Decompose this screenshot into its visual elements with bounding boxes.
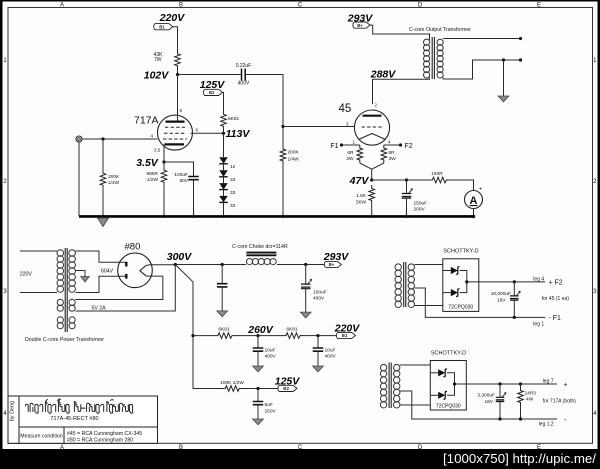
wire grid node to 45 pin 3 (283, 126, 355, 128)
net tag B+ 293V output (323, 251, 350, 268)
svg-text:leg 4: leg 4 (533, 276, 544, 282)
power transformer core (65, 248, 67, 332)
wire mains primary bottom (20, 292, 57, 294)
node 113V (222, 128, 250, 140)
wire mains primary top (20, 250, 57, 252)
45 filament V (358, 134, 385, 140)
svg-text:C-core Output Transformer: C-core Output Transformer (409, 27, 471, 33)
filament transformer 1 core (404, 262, 406, 307)
wire 113V node to zener chain (223, 133, 225, 157)
capacitor 10uF 400V at 220V (313, 348, 337, 360)
rectifier box 72CPQ030 no2 (430, 361, 466, 411)
capacitor 0.22uF 400V coupling (236, 63, 252, 87)
svg-text:+: + (479, 187, 482, 193)
wire ammeter to ground bus (473, 209, 475, 217)
wire secondary 1 tap to F1 return rail (415, 288, 546, 317)
svg-text:6K81: 6K81 (228, 116, 240, 122)
wire junction to B+ tag (306, 264, 325, 266)
wire zener2 to zener3 (223, 177, 225, 183)
wire 300V rail to choke (175, 264, 246, 266)
power transformer HV secondary winding 604V (69, 250, 76, 257)
svg-text:200V: 200V (414, 207, 426, 213)
svg-text:100uF: 100uF (174, 172, 188, 178)
wire secondary 2 tap to return rail 2 (400, 391, 557, 419)
node 24R3 junction top (519, 382, 522, 385)
svg-text:C-core Choke dcr=114R: C-core Choke dcr=114R (232, 244, 288, 250)
svg-text:72CPQ030: 72CPQ030 (448, 305, 473, 311)
output terminal top (519, 37, 522, 40)
wire 102V node to coupling cap (178, 74, 242, 76)
svg-text:1/4W: 1/4W (108, 180, 120, 186)
ammeter A (465, 187, 483, 209)
717A plate bar (166, 120, 185, 122)
wire 220V node to B1 tag (318, 335, 337, 337)
node common cathode 2 (453, 382, 456, 385)
output transformer primary winding (424, 39, 430, 45)
node 45 grid junction (281, 125, 284, 128)
svg-text:leg 1,2: leg 1,2 (539, 422, 554, 428)
capacitor 150uF 200V bias bypass (402, 189, 427, 213)
wire 260V to 6K81 dropper 2 (258, 335, 281, 337)
svg-text:400V: 400V (325, 354, 337, 360)
title block outer box (8, 396, 158, 443)
node 260V (247, 324, 274, 337)
power transformer 5V winding lower (57, 317, 63, 323)
wire 5uF to ground (257, 405, 259, 419)
svg-text:866R: 866R (147, 171, 159, 177)
node 102V (144, 70, 179, 82)
resistor 200K 1/4W grid leak of 45 (280, 147, 299, 164)
node 3300uF junction bottom (498, 417, 501, 420)
wire diodes to common cathode node 2 (447, 373, 455, 396)
svg-text:#80: #80 (125, 242, 141, 253)
svg-text:7W: 7W (154, 57, 162, 63)
node secondary ground junction (502, 58, 505, 61)
svg-text:B1: B1 (159, 24, 165, 29)
svg-text:+ F2: + F2 (549, 280, 563, 287)
wire 200K to ground bus (102, 188, 104, 217)
svg-text:100K 1/2W: 100K 1/2W (220, 380, 244, 386)
wire 47V node to 150uF node (372, 179, 407, 181)
svg-text:24R3: 24R3 (525, 391, 537, 397)
capacitor 3,300uF 16V (477, 392, 505, 405)
wire B+ tag to output transformer primary (370, 25, 430, 40)
wire 3.5V node to cathode resistor and cap (164, 162, 194, 177)
svg-text:+: + (564, 382, 568, 389)
svg-text:400V: 400V (265, 354, 277, 360)
filament transformer 2 secondary winding (394, 364, 400, 370)
wire 6K81 to 220V node (305, 335, 318, 337)
wire secondary 2 bottom to box (400, 404, 430, 406)
wire zener3 to zener4 (223, 190, 225, 196)
zener diode 33V b (219, 183, 235, 196)
frame zone letters top (60, 3, 541, 9)
svg-text:6K81: 6K81 (218, 327, 230, 333)
wire 10000uF to return rail (513, 300, 515, 317)
#80 plate bars (125, 262, 127, 279)
node 10000uF junction bottom (513, 316, 516, 319)
wire secondary 1 bottom to box (415, 305, 443, 307)
svg-text:5uF: 5uF (265, 402, 273, 408)
svg-text:288V: 288V (370, 69, 397, 81)
wire F1 to left filament leg (342, 144, 360, 146)
node 220V (316, 323, 360, 338)
svg-text:400V: 400V (238, 81, 250, 87)
frame zone numbers left (3, 58, 7, 417)
svg-text:Double C-core Power Transforme: Double C-core Power Transformer (25, 337, 104, 343)
svg-text:#45 = RCA Cunningham CX-345: #45 = RCA Cunningham CX-345 (67, 431, 142, 437)
schottky diode 2a (430, 369, 447, 377)
svg-text:B: B (179, 3, 183, 9)
svg-text:33: 33 (230, 177, 236, 183)
input jack (76, 136, 82, 142)
svg-text:16V: 16V (484, 399, 493, 405)
svg-text:B2: B2 (209, 90, 215, 95)
svg-text:33: 33 (230, 203, 236, 209)
net tag B2 125V supply (200, 79, 226, 96)
svg-text:E: E (537, 3, 541, 9)
wire 10uF to ground (257, 351, 259, 366)
ground bus junction dots (101, 215, 104, 218)
wire HV secondary top to #80 plate 1 (75, 251, 125, 262)
svg-text:604V: 604V (101, 269, 114, 275)
tube 717A envelope (158, 115, 193, 150)
svg-text:3W: 3W (346, 156, 354, 162)
svg-text:F2: F2 (405, 143, 413, 150)
717A grid dashed lines (163, 127, 187, 139)
svg-text:B+: B+ (329, 262, 335, 267)
title block by-Deng column divider (18, 396, 20, 443)
svg-text:leg 1: leg 1 (533, 321, 544, 327)
resistor 6K81 dropper 2 (281, 327, 305, 339)
wire 150R to ammeter (448, 180, 474, 191)
zener diode 33V c (219, 196, 235, 209)
svg-text:Measure condition: Measure condition (20, 434, 63, 440)
resistor 6R 3W left hum (346, 145, 362, 163)
svg-text:6R: 6R (389, 150, 396, 156)
node F2 terminal (399, 143, 413, 150)
zener diode 33V a (219, 170, 235, 183)
svg-text:for 45 (1 ea): for 45 (1 ea) (542, 296, 570, 302)
wire 150uF to ground bus (406, 198, 408, 216)
schottky diode 1b (443, 289, 460, 297)
svg-text:3.5V: 3.5V (136, 157, 159, 169)
wire zener1 to zener2 (223, 164, 225, 170)
svg-text:3W: 3W (389, 156, 397, 162)
wire 866R to ground bus (163, 185, 165, 217)
svg-text:113V: 113V (226, 128, 251, 140)
wire primary bottom to 288V node (373, 78, 430, 105)
resistor 24R3 4W bleeder (518, 384, 537, 405)
wire junction down to 150uF cap (406, 180, 408, 194)
ground 5uF cap (253, 419, 264, 425)
wire HV secondary bottom to #80 plate 2 (75, 276, 125, 292)
zener diode 12V (219, 157, 235, 170)
wire B2 tag down to 6K81 (222, 92, 223, 113)
svg-text:C: C (298, 3, 303, 9)
wire junction down to 10000uF (513, 282, 515, 296)
wire #80 filament top to 300V node (146, 264, 175, 267)
Thai tone marks (46, 399, 113, 401)
ground first filter cap (217, 311, 228, 317)
wire 125V down to 5uF (257, 389, 259, 402)
wire choke to B+ node (277, 264, 306, 266)
svg-text:33: 33 (230, 190, 236, 196)
wire secondary top to output terminal (443, 38, 520, 40)
wire plate of 717A up to 102V node (177, 75, 179, 122)
svg-text:16V: 16V (497, 298, 506, 304)
wire F2 to right filament leg (384, 144, 401, 146)
wire 260V down to 10uF cap (257, 336, 259, 348)
svg-text:[1000x750] http://upic.me/: [1000x750] http://upic.me/ (443, 451, 596, 466)
node 10000uF junction top (513, 280, 516, 283)
wire junction to 150R (407, 179, 431, 181)
wire junction down to 100uF cap (305, 265, 307, 285)
node 125V (256, 376, 300, 391)
wire 10uF 2 to ground (317, 351, 319, 366)
45 plate bar (363, 115, 382, 117)
svg-text:SCHOTTKY-D: SCHOTTKY-D (431, 351, 466, 357)
wire 1.5K to ground bus (371, 204, 373, 216)
resistor 150R meter shunt (431, 171, 449, 183)
resistor 100K 1/2W (216, 380, 248, 391)
choke core bars (246, 253, 276, 256)
svg-text:B1: B1 (342, 333, 348, 338)
svg-text:6R: 6R (347, 150, 354, 156)
capacitor 100uF 50V cathode bypass (174, 172, 198, 184)
svg-text:72CPQ030: 72CPQ030 (436, 404, 461, 410)
svg-text:260V: 260V (247, 324, 274, 336)
ground bus main (79, 215, 474, 218)
rectifier box 72CPQ030 no1 (443, 259, 479, 312)
wire B1 tag to 43K resistor (173, 27, 178, 51)
#80 filament chevron (140, 265, 146, 276)
node input junction (101, 137, 104, 140)
wire 100uF to ground bus (193, 180, 195, 216)
node 150uF junction (405, 178, 408, 181)
45 grid dashed line (362, 126, 383, 128)
svg-text:B: B (179, 445, 183, 451)
resistor 6K81 dropper 1 (213, 327, 237, 339)
output terminal bottom (519, 58, 522, 61)
title block measure cell divider (63, 427, 65, 443)
capacitor 5uF 250V (253, 402, 277, 415)
svg-text:220V: 220V (159, 12, 186, 24)
wire grid node to 200K and down to ground bus (282, 127, 284, 217)
wire dropper chain bottom to 100K (193, 388, 216, 390)
svg-text:by Deng: by Deng (10, 401, 16, 422)
tube 45 envelope (354, 110, 389, 145)
wire junction down to first filter cap (221, 265, 223, 284)
svg-text:10,000uF: 10,000uF (491, 291, 511, 297)
svg-text:3,5: 3,5 (154, 148, 161, 153)
node 300V (167, 251, 193, 266)
svg-text:150uF: 150uF (414, 201, 428, 207)
svg-text:717A: 717A (134, 115, 159, 127)
ground 100uF cap (300, 312, 311, 318)
wire 3300uF to return rail 2 (499, 402, 501, 420)
power transformer 5V winding upper (57, 299, 63, 305)
svg-text:1/2W: 1/2W (147, 177, 159, 183)
svg-text:10uF: 10uF (325, 348, 336, 354)
filament transformer 1 primary winding (395, 264, 401, 270)
wire 220V down to 10uF cap 2 (317, 336, 319, 348)
svg-text:4W: 4W (526, 397, 534, 403)
svg-text:10uF: 10uF (265, 348, 276, 354)
svg-text:6K81: 6K81 (286, 327, 298, 333)
filament transformer 2 core (389, 363, 391, 409)
capacitor 10,000uF 16V (491, 291, 520, 304)
wire 100uF to ground (305, 289, 307, 312)
wire junction down to 200K grid resistor (102, 139, 104, 171)
tube #80 envelope (118, 253, 153, 288)
resistor 866R 1/2W cathode (147, 168, 167, 184)
node F1 terminal (330, 143, 343, 150)
svg-text:0.22uF: 0.22uF (236, 63, 252, 69)
svg-text:300V: 300V (167, 251, 193, 263)
svg-text:- F1: - F1 (549, 315, 562, 322)
net tag B1 at 220V (336, 332, 355, 338)
schottky diode 2b (430, 392, 447, 400)
svg-text:B+: B+ (357, 23, 363, 28)
wire coupling cap to 45 grid node (245, 75, 283, 127)
svg-text:717A-45-RECT #80: 717A-45-RECT #80 (50, 416, 98, 422)
svg-text:A: A (60, 3, 64, 9)
wire secondary 1 top to box (415, 264, 443, 266)
wire secondary bottom to output terminal (443, 60, 520, 79)
svg-text:400V: 400V (313, 296, 325, 302)
wire 100K to 125V node (249, 388, 278, 390)
choke winding (246, 259, 252, 265)
title Thai text (drawn) (25, 402, 132, 414)
resistor 200K 1/4W input (100, 171, 120, 187)
svg-text:SCHOTTKY-D: SCHOTTKY-D (443, 249, 478, 255)
node 3.5V (136, 157, 165, 169)
svg-text:220V: 220V (20, 272, 33, 278)
node 260V row junction (191, 334, 194, 337)
node first filter cap junction (221, 263, 224, 266)
wire 300V node diagonal to B plus dropper chain (175, 265, 193, 389)
frame zone numbers right (593, 58, 597, 417)
frame zone letters bottom (60, 445, 541, 451)
ground 10uF at 220V (313, 366, 324, 372)
svg-text:200K: 200K (288, 150, 300, 156)
wire 717A cathode to 3.5V node (163, 144, 165, 162)
wire 717A pin 6 to 113V node (191, 132, 224, 134)
svg-text:150R: 150R (431, 171, 443, 177)
filament transformer 2 primary winding (380, 364, 386, 370)
svg-text:102V: 102V (144, 70, 170, 82)
wire rectifier 2 output to 717A filament (455, 383, 558, 385)
svg-text:A: A (60, 445, 64, 451)
capacitor first filter (217, 284, 228, 287)
output transformer core (432, 37, 434, 79)
wire junction to 6K81 dropper 1 (193, 335, 213, 337)
wire 6K81 to 113V node (223, 127, 225, 133)
svg-text:C: C (298, 445, 303, 451)
wire hum pot join to 47V node (360, 163, 384, 180)
title block measure row divider (19, 426, 158, 428)
wire 5V winding bottom to 300V node (75, 265, 175, 312)
svg-text:D: D (418, 3, 423, 9)
wire 6K81 to 260V node (237, 335, 258, 337)
wire junction down to 3300uF (499, 384, 501, 397)
ground symbol under bus (98, 218, 109, 227)
resistor 1.5K 50W bias (356, 185, 374, 206)
wire junction down to speaker ground (503, 60, 505, 96)
svg-text:45: 45 (339, 103, 352, 115)
wire secondary 2 top to box (400, 364, 430, 366)
output transformer secondary winding (437, 39, 443, 78)
wire 24R3 to return rail 2 (520, 405, 522, 419)
svg-text:50W: 50W (356, 200, 366, 206)
ground speaker return (498, 96, 509, 102)
svg-text:250V: 250V (265, 409, 277, 415)
svg-text:#80 = RCA Cunningham 280: #80 = RCA Cunningham 280 (67, 438, 133, 444)
wire diodes to common cathode node 1 (460, 271, 467, 293)
svg-text:12: 12 (230, 164, 236, 170)
svg-text:1/4W: 1/4W (288, 157, 300, 163)
node 3300uF junction top (498, 382, 501, 385)
resistor 6K81 screen feed (221, 114, 240, 128)
svg-text:leg 7: leg 7 (543, 378, 554, 384)
filament transformer 1 secondary winding (408, 264, 414, 270)
wire rectifier 1 output to F2 (467, 281, 546, 283)
resistor 6R 3W right hum (381, 145, 396, 163)
wire first filter cap to ground (221, 287, 223, 311)
svg-text:50V: 50V (179, 178, 188, 184)
capacitor 10uF 400V at 260V (253, 348, 277, 360)
717A cathode bar (165, 143, 185, 145)
wire jack shell down to ground bus (78, 142, 80, 216)
svg-text:B2: B2 (283, 386, 289, 391)
node common cathode 1 (465, 280, 468, 283)
resistor 43K 7W (154, 51, 181, 69)
svg-text:1.5K: 1.5K (356, 193, 367, 199)
schottky diode 1a (443, 267, 460, 275)
node B+ 293V junction (304, 263, 307, 266)
svg-text:200K: 200K (108, 174, 120, 180)
wire input jack to 717A pin 4 (83, 138, 158, 140)
net tag B2 at 125V (278, 385, 297, 391)
svg-text:47V: 47V (349, 175, 370, 187)
svg-text:3,300uF: 3,300uF (477, 392, 495, 398)
wire zener chain to ground bus (223, 203, 225, 216)
node 24R3 junction bottom (519, 417, 522, 420)
HV center tap arrow (75, 271, 85, 277)
ground 10uF at 260V (253, 366, 264, 372)
wire 43K to 102V node (177, 69, 179, 75)
node 47V (349, 175, 374, 187)
wire #80 filament bottom to 5V winding top (75, 276, 162, 299)
power transformer primary winding (57, 250, 64, 257)
net tag B1 220V supply (154, 12, 186, 30)
svg-text:A: A (470, 195, 478, 207)
svg-text:F1: F1 (330, 143, 338, 150)
svg-text:100uF: 100uF (313, 290, 327, 296)
svg-text:D: D (418, 445, 423, 451)
capacitor 100uF 400V reservoir (301, 279, 327, 301)
svg-text:for 717A (both): for 717A (both) (543, 398, 576, 404)
net tag B+ 293V to output transformer (347, 13, 374, 29)
